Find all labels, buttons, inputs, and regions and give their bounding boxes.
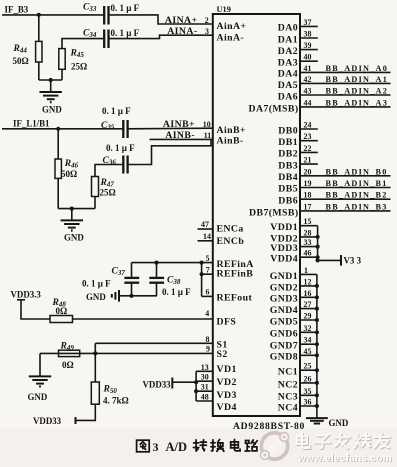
svg-text:43: 43 <box>304 87 312 96</box>
svg-text:46: 46 <box>304 249 312 258</box>
svg-text:DA1: DA1 <box>278 34 298 45</box>
wire R48 to DFS pin 4 <box>73 318 213 320</box>
capacitor C35 <box>122 120 124 138</box>
svg-text:DB6: DB6 <box>278 195 298 206</box>
svg-text:47: 47 <box>201 220 209 229</box>
pin 48 VD4 stub <box>196 400 213 402</box>
svg-text:AINA+: AINA+ <box>165 15 198 26</box>
svg-text:GND2: GND2 <box>270 282 298 293</box>
svg-text:AINB-: AINB- <box>165 130 195 141</box>
ground (sideways) <box>118 290 120 302</box>
wire S1 bus down to R50 <box>94 343 96 382</box>
resistor R47 <box>92 177 99 197</box>
wire S2 / R49 row <box>40 352 213 354</box>
svg-text:DB2: DB2 <box>278 149 298 160</box>
svg-text:25: 25 <box>304 362 312 371</box>
pin 36 NC4 stub <box>300 405 317 407</box>
svg-text:R49: R49 <box>60 342 75 353</box>
wire C35 to AinB+ pin 10 <box>128 127 213 130</box>
wire C37/C38 bottom rail <box>120 295 158 297</box>
pin 46 VDD4 stub <box>300 256 318 258</box>
pin 29 GND5 stub <box>300 319 317 321</box>
wire net BB_ADIN_B2 (pin 18) <box>300 198 391 200</box>
resistor R45 <box>59 49 65 70</box>
watermark text 电子发烧友 (gray shadow layer) <box>298 434 391 449</box>
svg-text:GND7: GND7 <box>270 341 298 352</box>
junction REFinB <box>200 272 204 276</box>
svg-text:20: 20 <box>304 167 312 176</box>
svg-text:V3 3: V3 3 <box>344 256 362 266</box>
wm glyph 电 <box>297 434 310 449</box>
svg-text:R50: R50 <box>103 384 118 395</box>
wire REFinA rail <box>132 262 213 264</box>
svg-text:GND: GND <box>42 104 62 114</box>
wire VDD bus <box>318 226 341 261</box>
svg-text:R44: R44 <box>13 44 28 55</box>
wire net BB_ADIN_A3 (pin 44) <box>300 106 391 108</box>
capacitor C36 <box>122 156 124 174</box>
svg-text:42: 42 <box>304 75 312 84</box>
wire VDD3.3 to R48 <box>21 300 50 319</box>
wire R49 left to ground <box>39 353 41 375</box>
ground <box>61 219 83 221</box>
svg-text:GND6: GND6 <box>270 329 298 340</box>
svg-text:50Ω: 50Ω <box>61 169 77 179</box>
wire net BB_ADIN_B1 (pin 19) <box>300 187 391 189</box>
resistor R48 <box>50 316 73 323</box>
svg-text:ENCa: ENCa <box>217 224 244 235</box>
svg-text:DA7(MSB): DA7(MSB) <box>248 104 298 115</box>
svg-text:BB_ADIN_B2: BB_ADIN_B2 <box>326 191 388 200</box>
svg-text:R46: R46 <box>64 159 79 170</box>
svg-text:VD2: VD2 <box>217 377 237 388</box>
node V33 <box>340 255 342 266</box>
wire C33 to AinA+ pin 2 <box>109 15 213 24</box>
svg-text:GND: GND <box>28 392 48 402</box>
svg-text:14: 14 <box>203 232 211 241</box>
svg-text:BB_ADIN_A3: BB_ADIN_A3 <box>326 98 389 107</box>
svg-text:VDD3: VDD3 <box>270 243 298 254</box>
pin 15 VDD1 stub <box>300 225 318 227</box>
wire net BB_ADIN_A1 (pin 42) <box>300 82 391 84</box>
ground <box>40 91 62 93</box>
svg-text:DFS: DFS <box>217 317 237 328</box>
svg-text:BB_ADIN_B0: BB_ADIN_B0 <box>326 167 388 176</box>
wm glyph 子 <box>315 436 331 449</box>
pin 31 VD3 stub <box>196 390 213 392</box>
glyph 换 <box>211 440 224 452</box>
pin 37 DA0 stub <box>300 25 318 27</box>
svg-text:NC1: NC1 <box>278 367 298 378</box>
svg-text:41: 41 <box>304 64 312 73</box>
glyph 路 <box>245 440 257 451</box>
pin 38 DA1 stub <box>300 37 318 39</box>
svg-text:BB_ADIN_A1: BB_ADIN_A1 <box>326 75 389 84</box>
wire R46/R47 common to ground <box>58 208 95 210</box>
svg-text:16: 16 <box>304 289 312 298</box>
pin 32 GND6 stub <box>300 331 317 333</box>
svg-text:DB7(MSB): DB7(MSB) <box>249 207 298 218</box>
pin 30 VD2 stub <box>196 380 213 382</box>
pin 28 VDD2 stub <box>300 236 318 238</box>
svg-text:GND5: GND5 <box>270 316 298 327</box>
svg-text:28: 28 <box>304 228 312 237</box>
svg-text:0. 1 µ F: 0. 1 µ F <box>162 287 191 297</box>
pin 25 NC1 stub <box>300 369 317 371</box>
svg-text:DA6: DA6 <box>278 91 298 102</box>
pin 47 ENCa stub <box>198 228 213 230</box>
pin 39 DA2 stub <box>300 49 318 51</box>
wire R44/R45 common to ground <box>39 79 62 81</box>
svg-text:21: 21 <box>304 156 312 165</box>
svg-text:3: 3 <box>153 440 159 454</box>
wire net BB_ADIN_A2 (pin 43) <box>300 94 391 96</box>
svg-text:38: 38 <box>304 30 312 39</box>
svg-text:GND: GND <box>86 292 106 302</box>
svg-text:4: 4 <box>205 309 209 318</box>
svg-text:AinA+: AinA+ <box>217 21 247 32</box>
svg-text:VD1: VD1 <box>217 364 237 375</box>
svg-text:NC3: NC3 <box>278 392 298 403</box>
svg-text:0Ω: 0Ω <box>56 306 68 316</box>
svg-text:BB_ADIN_A0: BB_ADIN_A0 <box>326 64 389 73</box>
svg-text:R45: R45 <box>70 49 85 60</box>
svg-text:DA5: DA5 <box>278 80 298 91</box>
junction at IF_L1/B1 / R46 <box>56 127 60 131</box>
svg-text:www.elecfans.com: www.elecfans.com <box>297 454 392 465</box>
svg-text:AinA-: AinA- <box>217 33 245 44</box>
svg-text:36: 36 <box>304 398 312 407</box>
pin 26 NC2 stub <box>300 382 317 384</box>
svg-text:30: 30 <box>201 373 209 382</box>
pin 40 DA3 stub <box>300 60 318 62</box>
svg-text:0. 1 µ F: 0. 1 µ F <box>111 3 140 13</box>
svg-text:39: 39 <box>304 41 312 50</box>
pin 23 DB1 stub <box>300 140 318 142</box>
pin 13 VD1 stub <box>196 370 213 372</box>
svg-text:0. 1 µ F: 0. 1 µ F <box>111 28 140 38</box>
svg-text:3: 3 <box>205 27 209 36</box>
svg-text:31: 31 <box>201 383 209 392</box>
wire VD bus <box>195 371 197 401</box>
pin 1 GND1 stub <box>300 273 317 275</box>
svg-text:ENCb: ENCb <box>217 236 245 247</box>
svg-text:6: 6 <box>206 288 210 297</box>
svg-text:VD4: VD4 <box>217 402 237 413</box>
svg-text:AD9288BST-80: AD9288BST-80 <box>233 421 305 432</box>
svg-text:33: 33 <box>304 238 312 247</box>
svg-text:REFout: REFout <box>217 293 253 304</box>
capacitor C34 <box>103 30 105 49</box>
pin 7 REFinB stub <box>202 273 213 275</box>
svg-text:4. 7kΩ: 4. 7kΩ <box>103 395 129 405</box>
wm glyph 友 <box>375 434 390 448</box>
svg-text:35: 35 <box>304 387 312 396</box>
svg-text:GND1: GND1 <box>270 271 298 282</box>
wire VDD33 to VD bus <box>172 381 196 383</box>
svg-text:DA0: DA0 <box>278 23 298 34</box>
svg-text:DA3: DA3 <box>278 58 298 69</box>
svg-text:DB3: DB3 <box>278 160 298 171</box>
svg-text:VDD4: VDD4 <box>270 254 298 265</box>
svg-text:50Ω: 50Ω <box>13 56 29 66</box>
pin 27 GND4 stub <box>300 308 317 310</box>
capacitor C37 <box>131 263 133 278</box>
svg-text:22: 22 <box>304 144 312 153</box>
svg-text:NC2: NC2 <box>278 379 298 390</box>
svg-text:DB0: DB0 <box>278 125 298 136</box>
svg-text:0. 1 µ F: 0. 1 µ F <box>106 143 135 153</box>
wire IF_L1/B1 to C35 <box>2 128 123 130</box>
svg-text:26: 26 <box>304 374 312 383</box>
pin 33 VDD3 stub <box>300 246 318 248</box>
svg-text:48: 48 <box>201 393 209 402</box>
svg-text:29: 29 <box>304 312 312 321</box>
caption: 图3 A/D转换电路 <box>137 440 258 452</box>
svg-text:IF_L1/B1: IF_L1/B1 <box>13 119 50 129</box>
svg-text:13: 13 <box>201 363 209 372</box>
svg-text:DB4: DB4 <box>278 172 298 183</box>
resistor R46 <box>57 129 59 159</box>
watermark logo (elecfans) <box>260 433 288 460</box>
svg-text:U19: U19 <box>217 5 231 14</box>
svg-text:A/D: A/D <box>166 440 188 454</box>
wire C36 to AinB- pin 11 <box>128 139 211 164</box>
svg-text:15: 15 <box>304 217 312 226</box>
junction C38 top <box>154 261 158 265</box>
wire net BB_ADIN_B3 (pin 17) <box>300 210 391 212</box>
svg-text:34: 34 <box>304 336 312 345</box>
svg-text:19: 19 <box>304 179 312 188</box>
svg-text:GND3: GND3 <box>270 294 298 305</box>
svg-text:VDD3.3: VDD3.3 <box>11 289 42 299</box>
wire R50 to VDD33 <box>76 404 96 420</box>
svg-text:12: 12 <box>304 277 312 286</box>
svg-text:C33: C33 <box>83 3 97 14</box>
svg-text:GND4: GND4 <box>270 305 298 316</box>
svg-text:VD3: VD3 <box>217 390 237 401</box>
wire R47 to C36 <box>95 165 123 177</box>
wm glyph 烧 <box>355 434 371 448</box>
svg-text:25Ω: 25Ω <box>100 188 116 198</box>
wire AinB- label line <box>150 138 213 140</box>
wire net BB_ADIN_A0 (pin 41) <box>300 71 391 73</box>
svg-text:AinB+: AinB+ <box>217 125 246 136</box>
resistor R50 <box>91 382 99 404</box>
svg-text:VDD1: VDD1 <box>270 222 298 233</box>
svg-text:C37: C37 <box>112 266 126 277</box>
svg-text:DB5: DB5 <box>278 184 298 195</box>
svg-text:VDD33: VDD33 <box>143 379 172 389</box>
op-amp U19 (ADC AD9288BST-80) body <box>213 14 300 416</box>
svg-text:S2: S2 <box>217 349 228 360</box>
glyph 转 <box>193 440 206 451</box>
glyph 图 <box>137 440 150 452</box>
svg-text:44: 44 <box>304 98 312 107</box>
pin 21 DB3 stub <box>300 163 318 165</box>
pin 14 ENCb stub <box>198 240 213 242</box>
pin 12 GND2 stub <box>300 285 317 287</box>
svg-text:C38: C38 <box>167 275 181 286</box>
svg-text:11: 11 <box>204 131 212 140</box>
svg-text:45: 45 <box>304 347 312 356</box>
svg-text:0. 1 µ F: 0. 1 µ F <box>82 278 111 288</box>
svg-text:18: 18 <box>304 191 312 200</box>
svg-text:10: 10 <box>203 120 211 129</box>
svg-text:BB_ADIN_B1: BB_ADIN_B1 <box>326 179 388 188</box>
ground <box>29 375 51 377</box>
svg-text:C34: C34 <box>83 29 97 40</box>
watermark text 电子发烧友 (white top layer) <box>297 434 390 449</box>
svg-text:0Ω: 0Ω <box>62 360 74 370</box>
ground (bottom right) <box>306 417 328 419</box>
svg-text:5: 5 <box>206 254 210 263</box>
svg-text:8: 8 <box>206 335 210 344</box>
svg-text:C35: C35 <box>101 121 115 132</box>
svg-text:REFinB: REFinB <box>217 268 254 279</box>
svg-text:NC4: NC4 <box>278 402 298 413</box>
svg-text:BB_ADIN_A2: BB_ADIN_A2 <box>326 87 389 96</box>
svg-text:27: 27 <box>304 300 312 309</box>
svg-text:25Ω: 25Ω <box>71 62 87 72</box>
pin 35 NC3 stub <box>300 394 317 396</box>
svg-text:23: 23 <box>304 132 312 141</box>
wire S1 row <box>95 342 213 344</box>
svg-text:DA4: DA4 <box>278 69 298 80</box>
svg-text:17: 17 <box>304 202 312 211</box>
capacitor C33 <box>103 6 105 25</box>
svg-text:1: 1 <box>304 266 308 275</box>
pin 22 DB2 stub <box>300 151 318 153</box>
svg-text:VDD33: VDD33 <box>33 416 62 426</box>
svg-text:IF_B3: IF_B3 <box>5 4 29 14</box>
pin 45 GND8 stub <box>300 354 317 356</box>
svg-text:GND8: GND8 <box>270 352 298 363</box>
svg-text:GND: GND <box>64 232 84 242</box>
pin 34 GND7 stub <box>300 343 317 345</box>
svg-text:BB_ADIN_B3: BB_ADIN_B3 <box>326 202 388 211</box>
junction REF bus top <box>200 261 204 265</box>
junction at IF_B3 / R44 <box>37 13 41 17</box>
svg-text:AINA-: AINA- <box>167 26 197 37</box>
glyph 电 <box>231 440 240 451</box>
svg-text:7: 7 <box>206 265 210 274</box>
svg-text:AinB-: AinB- <box>217 136 244 147</box>
wire GND/NC bus <box>316 274 318 417</box>
svg-text:37: 37 <box>304 18 312 27</box>
pin 6 REFout stub <box>202 295 213 297</box>
svg-text:9: 9 <box>206 345 210 354</box>
svg-text:AINB+: AINB+ <box>163 119 195 130</box>
svg-text:2: 2 <box>205 16 209 25</box>
wire REF bus <box>201 263 203 297</box>
resistor R44 <box>38 15 40 42</box>
svg-text:32: 32 <box>304 324 312 333</box>
pin 24 DB0 stub <box>300 128 318 130</box>
svg-text:DB1: DB1 <box>278 137 298 148</box>
svg-text:GND: GND <box>329 418 349 428</box>
svg-text:0. 1 µ F: 0. 1 µ F <box>102 106 131 116</box>
svg-text:DA2: DA2 <box>278 46 298 57</box>
capacitor C38 <box>156 263 158 278</box>
svg-text:40: 40 <box>304 53 312 62</box>
wire net BB_ADIN_B0 (pin 20) <box>300 175 391 177</box>
pin 16 GND3 stub <box>300 296 317 298</box>
wire IF_B3 to C33 <box>2 14 104 16</box>
wire C34 to AinA- pin 3 <box>109 35 213 38</box>
wm glyph 发 <box>335 434 350 449</box>
svg-text:24: 24 <box>304 121 312 130</box>
wire R45 to C34 <box>62 39 104 49</box>
resistor R49 <box>59 350 80 356</box>
